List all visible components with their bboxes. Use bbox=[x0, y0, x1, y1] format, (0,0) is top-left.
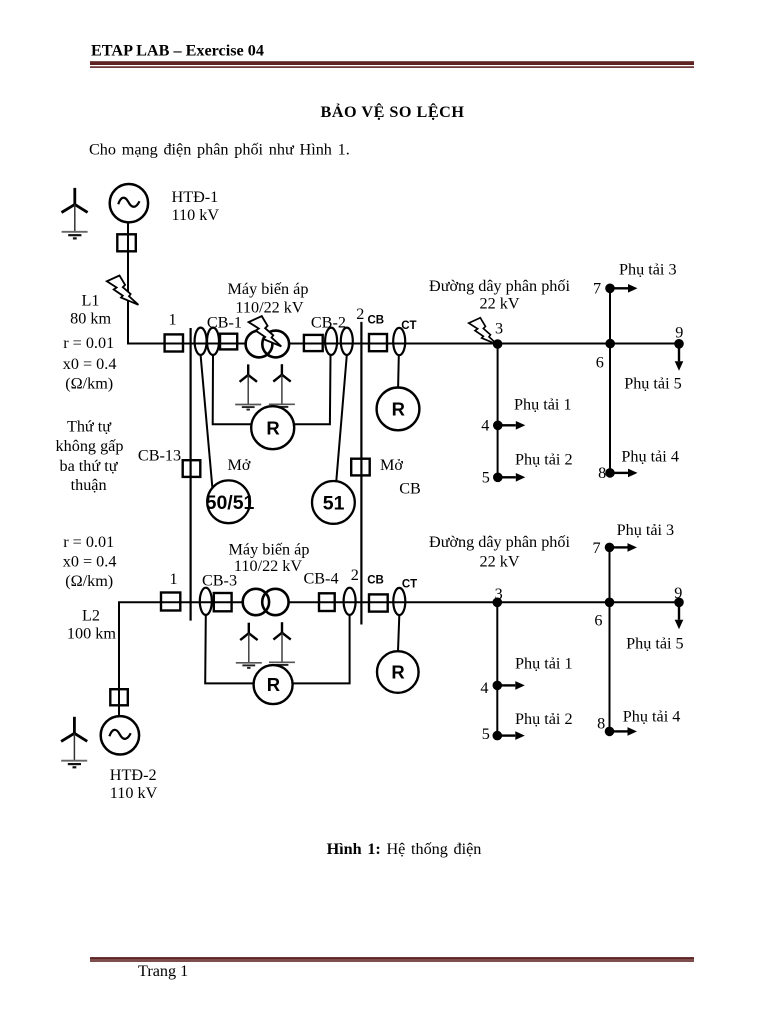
svg-text:Phụ tải 2: Phụ tải 2 bbox=[515, 451, 573, 469]
svg-text:CB: CB bbox=[367, 314, 384, 326]
svg-text:Phụ tải 5: Phụ tải 5 bbox=[624, 375, 682, 393]
svg-text:110/22 kV: 110/22 kV bbox=[235, 299, 304, 317]
svg-text:r = 0.01: r = 0.01 bbox=[63, 334, 114, 352]
svg-text:thuận: thuận bbox=[71, 476, 107, 494]
svg-text:Máy biến áp: Máy biến áp bbox=[228, 280, 309, 298]
svg-text:CB-4: CB-4 bbox=[303, 570, 338, 588]
svg-text:R: R bbox=[391, 662, 404, 683]
svg-text:Máy biến áp: Máy biến áp bbox=[229, 541, 310, 559]
svg-text:50/51: 50/51 bbox=[206, 492, 255, 514]
svg-text:R: R bbox=[267, 674, 280, 695]
svg-text:7: 7 bbox=[593, 280, 601, 298]
svg-text:CB: CB bbox=[367, 575, 384, 587]
svg-text:CB-13: CB-13 bbox=[138, 446, 181, 464]
svg-text:Phụ tải 1: Phụ tải 1 bbox=[514, 396, 572, 414]
svg-text:1: 1 bbox=[169, 570, 177, 588]
svg-text:r = 0.01: r = 0.01 bbox=[63, 533, 114, 551]
svg-text:5: 5 bbox=[482, 725, 490, 743]
svg-text:Thứ tự: Thứ tự bbox=[67, 418, 112, 436]
svg-text:L2: L2 bbox=[82, 607, 100, 625]
svg-text:22 kV: 22 kV bbox=[479, 295, 519, 313]
svg-text:(Ω/km): (Ω/km) bbox=[65, 572, 113, 590]
svg-text:CB-3: CB-3 bbox=[202, 572, 237, 590]
svg-text:CT: CT bbox=[402, 579, 417, 591]
svg-text:ba thứ tự: ba thứ tự bbox=[59, 457, 118, 475]
svg-text:R: R bbox=[266, 417, 279, 438]
svg-text:3: 3 bbox=[495, 320, 503, 338]
svg-text:BẢO VỆ SO LỆCH: BẢO VỆ SO LỆCH bbox=[321, 102, 465, 121]
svg-text:3: 3 bbox=[495, 585, 503, 603]
svg-text:6: 6 bbox=[594, 612, 602, 630]
svg-text:80 km: 80 km bbox=[70, 310, 111, 328]
svg-text:Phụ tải 3: Phụ tải 3 bbox=[619, 261, 677, 279]
svg-text:Trang 1: Trang 1 bbox=[138, 962, 188, 980]
svg-text:(Ω/km): (Ω/km) bbox=[65, 375, 113, 393]
svg-text:HTĐ-2: HTĐ-2 bbox=[110, 766, 157, 784]
svg-text:1: 1 bbox=[168, 311, 176, 329]
svg-text:110 kV: 110 kV bbox=[172, 206, 220, 224]
svg-text:Mở: Mở bbox=[380, 456, 403, 474]
svg-text:8: 8 bbox=[598, 464, 606, 482]
svg-text:Đường dây phân phối: Đường dây phân phối bbox=[429, 277, 570, 295]
svg-text:9: 9 bbox=[675, 324, 683, 342]
svg-text:51: 51 bbox=[323, 492, 345, 514]
svg-text:Cho mạng điện phân phối như Hì: Cho mạng điện phân phối như Hình 1. bbox=[89, 141, 350, 159]
svg-text:110/22 kV: 110/22 kV bbox=[234, 557, 303, 575]
svg-text:110 kV: 110 kV bbox=[110, 784, 158, 802]
svg-text:Phụ tải 5: Phụ tải 5 bbox=[626, 635, 684, 653]
svg-text:6: 6 bbox=[596, 354, 604, 372]
svg-text:7: 7 bbox=[592, 539, 600, 557]
svg-text:Phụ tải 3: Phụ tải 3 bbox=[617, 521, 675, 539]
svg-text:Phụ tải 1: Phụ tải 1 bbox=[515, 655, 573, 673]
svg-text:Phụ tải 4: Phụ tải 4 bbox=[621, 448, 679, 466]
svg-text:CB-2: CB-2 bbox=[311, 314, 346, 332]
svg-text:8: 8 bbox=[597, 715, 605, 733]
svg-text:2: 2 bbox=[356, 305, 364, 323]
svg-text:không gấp: không gấp bbox=[56, 437, 124, 455]
svg-text:x0 = 0.4: x0 = 0.4 bbox=[63, 355, 117, 373]
svg-text:4: 4 bbox=[480, 679, 488, 697]
svg-text:9: 9 bbox=[674, 584, 682, 602]
svg-text:Phụ tải 4: Phụ tải 4 bbox=[623, 708, 681, 726]
svg-text:HTĐ-1: HTĐ-1 bbox=[172, 188, 219, 206]
svg-text:Hình 1: Hệ thống điện: Hình 1: Hệ thống điện bbox=[327, 840, 482, 858]
svg-text:22 kV: 22 kV bbox=[479, 553, 519, 571]
svg-text:L1: L1 bbox=[82, 292, 100, 310]
svg-text:100 km: 100 km bbox=[67, 625, 116, 643]
svg-text:5: 5 bbox=[482, 469, 490, 487]
svg-text:Phụ tải 2: Phụ tải 2 bbox=[515, 710, 573, 728]
svg-text:2: 2 bbox=[351, 566, 359, 584]
svg-text:Mở: Mở bbox=[228, 456, 251, 474]
svg-text:Đường dây phân phối: Đường dây phân phối bbox=[429, 533, 570, 551]
svg-text:4: 4 bbox=[481, 417, 489, 435]
svg-text:ETAP LAB – Exercise 04: ETAP LAB – Exercise 04 bbox=[91, 42, 264, 60]
svg-text:CB: CB bbox=[399, 480, 421, 498]
svg-text:x0 = 0.4: x0 = 0.4 bbox=[63, 553, 117, 571]
svg-text:R: R bbox=[392, 399, 405, 420]
svg-text:CT: CT bbox=[401, 320, 416, 332]
